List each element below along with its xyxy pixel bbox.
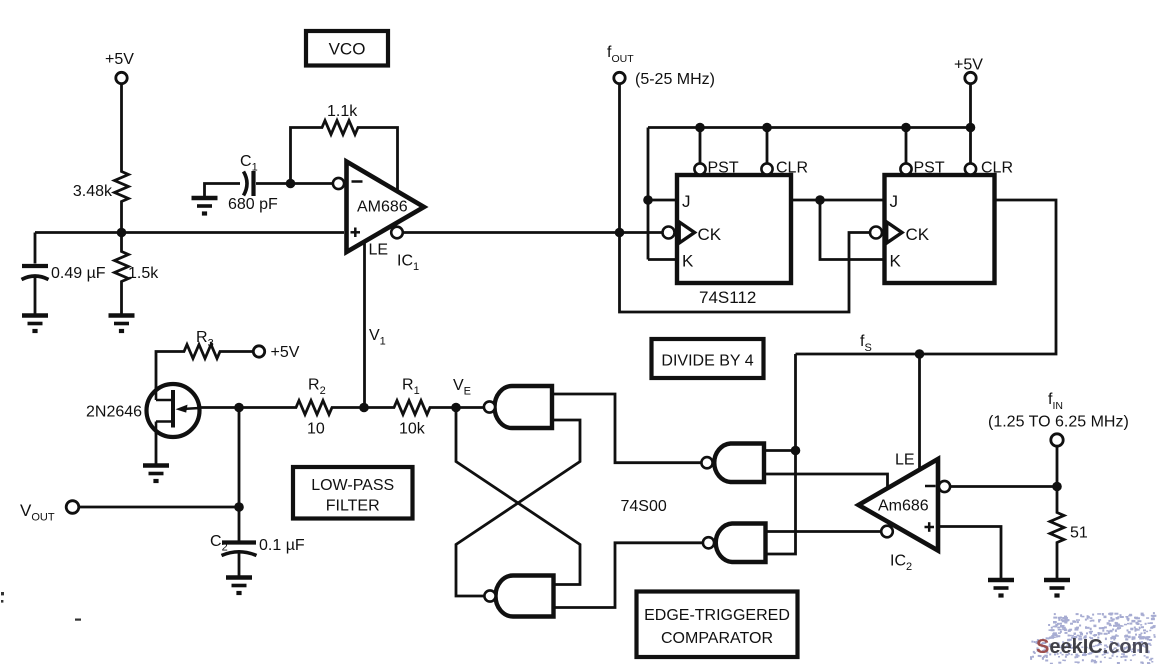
svg-text:K: K	[682, 252, 694, 271]
svg-text:+5V: +5V	[105, 51, 134, 68]
svg-text:FILTER: FILTER	[326, 498, 380, 515]
svg-text:0.1 µF: 0.1 µF	[259, 537, 305, 554]
svg-text:51: 51	[1070, 525, 1088, 542]
svg-text:DIVIDE BY 4: DIVIDE BY 4	[661, 353, 753, 370]
svg-text:0.49 µF: 0.49 µF	[51, 265, 106, 282]
svg-text:10k: 10k	[399, 421, 426, 438]
svg-text:10: 10	[307, 421, 325, 438]
svg-text:LE: LE	[895, 452, 915, 469]
svg-text:CK: CK	[698, 225, 722, 244]
svg-text:J: J	[682, 192, 691, 211]
svg-text:1.1k: 1.1k	[327, 103, 358, 120]
svg-text:EDGE-TRIGGERED: EDGE-TRIGGERED	[644, 607, 790, 624]
svg-text:(5-25 MHz): (5-25 MHz)	[635, 71, 715, 88]
svg-text:J: J	[890, 192, 899, 211]
svg-text:VCO: VCO	[329, 40, 366, 59]
svg-text:3.48k: 3.48k	[73, 183, 113, 200]
svg-text:LE: LE	[369, 242, 389, 259]
svg-text:CLR: CLR	[776, 160, 808, 177]
svg-text:K: K	[890, 252, 902, 271]
svg-text:SeekIC.com: SeekIC.com	[1036, 636, 1149, 658]
svg-text:AM686: AM686	[357, 199, 408, 216]
svg-text:CK: CK	[906, 225, 930, 244]
svg-text:PST: PST	[708, 160, 739, 177]
svg-text:74S112: 74S112	[699, 288, 756, 307]
svg-text:74S00: 74S00	[621, 498, 667, 515]
svg-text:CLR: CLR	[981, 160, 1013, 177]
svg-text:COMPARATOR: COMPARATOR	[661, 630, 773, 647]
svg-text:2N2646: 2N2646	[86, 404, 142, 421]
svg-text:LOW-PASS: LOW-PASS	[311, 477, 394, 494]
svg-text:PST: PST	[914, 160, 945, 177]
svg-text:1.5k: 1.5k	[128, 265, 159, 282]
svg-text:+5V: +5V	[271, 344, 300, 361]
svg-text:+5V: +5V	[954, 57, 983, 74]
svg-text:Am686: Am686	[878, 498, 929, 515]
svg-text:680 pF: 680 pF	[228, 196, 278, 213]
svg-text:(1.25 TO 6.25 MHz): (1.25 TO 6.25 MHz)	[988, 414, 1129, 431]
